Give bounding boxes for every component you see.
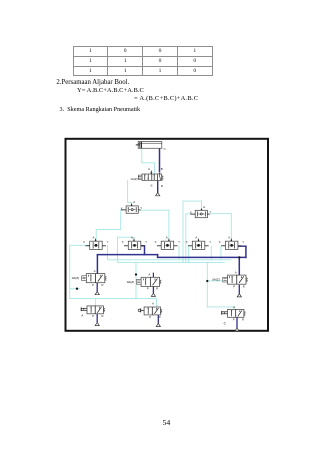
svg-text:P: P [149,315,151,319]
svg-text:Y: Y [107,240,109,244]
svg-text:0A(Z): 0A(Z) [212,278,220,282]
svg-text:Y: Y [242,240,244,244]
svg-text:Y: Y [145,240,147,244]
svg-text:R: R [156,287,158,291]
svg-text:R: R [102,283,104,287]
svg-text:R: R [242,317,244,321]
svg-text:B: B [161,167,163,171]
svg-text:P: P [147,287,149,291]
svg-text:R: R [159,315,161,319]
svg-text:X: X [83,240,85,244]
svg-text:0A(Z): 0A(Z) [72,276,80,280]
svg-text:A: A [235,271,237,275]
svg-text:R: R [243,285,245,289]
svg-text:1A(Z): 1A(Z) [130,177,137,181]
svg-text:S: S [150,183,152,187]
svg-text:A: A [148,273,150,277]
svg-text:A: A [133,200,135,204]
svg-text:R: R [102,314,104,318]
svg-text:R: R [161,184,163,188]
svg-text:P: P [92,283,94,287]
svg-text:A: A [228,235,230,239]
svg-text:A: A [203,205,205,209]
svg-text:Y: Y [209,240,211,244]
svg-text:Y: Y [210,210,212,214]
svg-text:Y: Y [140,206,142,210]
svg-text:P: P [233,317,235,321]
svg-text:A: A [94,269,96,273]
svg-text:P: P [92,314,94,318]
svg-text:X: X [186,240,188,244]
svg-text:A: A [233,305,235,309]
svg-text:A: A [131,235,133,239]
svg-text:A: A [92,235,94,239]
svg-text:0A(Z): 0A(Z) [127,280,135,284]
svg-text:A: A [195,235,197,239]
svg-text:P: P [233,285,235,289]
svg-text:C: C [224,321,227,325]
svg-text:A: A [148,167,150,171]
svg-text:A: A [81,313,83,317]
svg-text:A: A [152,301,154,305]
svg-text:Y: Y [178,240,180,244]
svg-text:X: X [154,240,156,244]
svg-text:X: X [122,240,124,244]
svg-text:A: A [166,235,168,239]
svg-text:X: X [219,240,221,244]
svg-text:1A1: 1A1 [163,148,167,151]
